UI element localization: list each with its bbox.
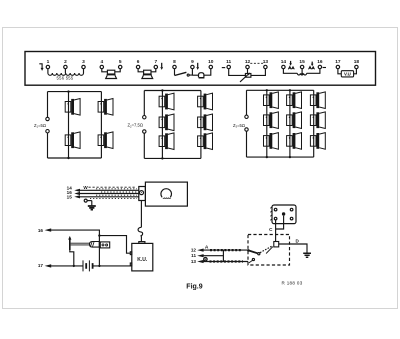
group1 column 1 wire [68, 92, 70, 158]
speaker g1 r1c2 [98, 99, 113, 116]
wire terminal 4 to speaker [102, 69, 108, 72]
speaker between 6-7 (horn down) [144, 70, 151, 74]
svg-text:14: 14 [281, 59, 287, 65]
group2 column 1 wire [161, 91, 163, 159]
svg-text:18: 18 [354, 59, 360, 65]
dashed link 12-13 [250, 62, 263, 64]
speaker g1 r1c1 [65, 99, 80, 116]
svg-text:Fig.9: Fig.9 [186, 284, 202, 291]
svg-text:17: 17 [38, 263, 44, 268]
speaker g2 r1c1 [159, 93, 174, 110]
svg-text:8: 8 [173, 59, 176, 65]
svg-text:17: 17 [335, 59, 341, 65]
group3 top wire [247, 89, 314, 91]
rheostat arrow [240, 75, 248, 82]
svg-text:4: 4 [100, 59, 103, 65]
K.U. box [132, 243, 153, 271]
group1 top wire [48, 91, 102, 93]
speaker g3 r2c3 [310, 112, 325, 129]
speaker g3 r1c3 [310, 92, 325, 109]
speaker g3 r2c1 [264, 112, 279, 129]
shield bond vertical [222, 250, 224, 261]
input arrow before terminal 1 [39, 64, 42, 68]
wire terminal 6 to speaker [138, 69, 144, 72]
group1 column 2 wire [100, 92, 102, 158]
svg-text:16: 16 [317, 59, 323, 65]
svg-text:16: 16 [38, 228, 44, 233]
buzzer between 9-10 [192, 74, 198, 76]
cable lacing hatches [96, 188, 137, 190]
group3 left vertical + terminals [246, 90, 248, 157]
svg-text:6: 6 [137, 59, 140, 65]
tapped coil 556 555 between terminals 1-3 [48, 69, 84, 74]
wire 17 with battery [51, 265, 83, 267]
svg-text:Z3=5Ω: Z3=5Ω [233, 123, 245, 129]
down arrow after terminal 9 [197, 63, 199, 67]
speaker g3 r1c2 [287, 92, 302, 109]
speaker g2 r2c2 [198, 114, 213, 131]
speaker g3 r3c2 [287, 133, 302, 150]
svg-text:15: 15 [67, 194, 73, 199]
wire from push bar to battery line [70, 250, 74, 266]
group3 column 3 wire [313, 90, 315, 157]
group1 bottom wire [48, 157, 102, 159]
shield terminal circle [84, 199, 87, 202]
wire 15 with left arrow [79, 196, 139, 198]
svg-text:15: 15 [299, 59, 305, 65]
svg-text:A: A [205, 245, 209, 251]
terminal circles 1-18 [46, 65, 358, 68]
svg-text:11: 11 [191, 253, 196, 258]
dashed switch box [248, 235, 290, 266]
wire 14 with left arrow [79, 189, 139, 191]
dashed line W [89, 186, 137, 188]
svg-text:W: W [83, 185, 88, 190]
speaker between 4-5 (horn down) [107, 70, 114, 74]
group3 bottom wire [247, 156, 314, 158]
svg-text:12: 12 [245, 59, 251, 65]
jack bushing [274, 242, 279, 247]
jack mounting plate [272, 205, 296, 224]
wire terminal 5 to speaker [115, 69, 120, 72]
group3 junction dots [266, 89, 268, 91]
speaker g2 r3c1 [159, 133, 174, 150]
contact marks between 15-16 [309, 67, 315, 70]
speaker g1 r2c1 [65, 132, 80, 149]
fader between 14-15-16 [283, 69, 297, 74]
V.U box between 17-18 [338, 69, 341, 74]
wire from plate hole to jack [275, 220, 277, 242]
svg-text:3: 3 [82, 59, 85, 65]
group2 bottom wire [144, 157, 201, 159]
group2 top wire [144, 90, 201, 92]
group2 column 2 wire [200, 91, 202, 159]
down arrow between 14-15 [290, 61, 292, 64]
group1 left vertical + terminals [47, 92, 49, 158]
plate edge hatching [270, 207, 272, 221]
spring contact from bushing [266, 247, 273, 254]
group2 junction dots [161, 89, 163, 91]
branch to K.U. upper tab [99, 236, 130, 254]
speaker g2 r1c2 [198, 93, 213, 110]
junction dot at box edge [247, 249, 250, 252]
svg-text:V.U: V.U [344, 71, 351, 76]
contact capsule [90, 242, 100, 248]
wire D to ground [279, 244, 307, 253]
svg-text:K.U.: K.U. [137, 257, 148, 263]
down arrow after terminal 7 [161, 63, 163, 67]
down arrow between 15-16 [311, 62, 313, 64]
svg-text:Z2=7,5Ω: Z2=7,5Ω [127, 123, 143, 129]
speaker g3 r1c1 [264, 92, 279, 109]
terminal numbers 1-18 [47, 59, 360, 65]
wire 16 with left arrow [79, 193, 139, 195]
svg-text:12: 12 [191, 248, 197, 253]
svg-text:7: 7 [154, 59, 157, 65]
speaker g2 r2c1 [159, 114, 174, 131]
svg-text:2: 2 [64, 59, 67, 65]
group3 column 2 wire [289, 90, 291, 157]
insulated actuator rod [260, 246, 273, 253]
switch between 8-9 [174, 69, 176, 76]
wire 11 [203, 255, 223, 257]
speaker g3 r2c2 [287, 112, 302, 129]
svg-text:13: 13 [191, 259, 197, 264]
wire 13 (shielded) [203, 261, 248, 263]
wire 16 (press-to-talk) [51, 230, 99, 242]
group1 junction dots [67, 90, 69, 92]
svg-text:556 555: 556 555 [57, 76, 74, 81]
amplifier unit box [145, 182, 187, 206]
Re box [100, 242, 109, 248]
svg-text:9: 9 [191, 59, 194, 65]
contact marks between 14-15 [288, 67, 294, 70]
speaker g2 r3c2 [198, 133, 213, 150]
svg-text:1: 1 [47, 59, 50, 65]
cord to K.U. with squiggle [140, 201, 142, 227]
svg-text:11: 11 [226, 59, 231, 65]
wire C from tip contact [276, 216, 284, 229]
rheostat between 11-12-13 [229, 69, 246, 76]
svg-text:5: 5 [119, 59, 122, 65]
minus mark left of terminal 11 [222, 67, 225, 69]
connector box [139, 187, 146, 201]
switch vertical through capsule [98, 242, 100, 266]
svg-text:Z1=5Ω: Z1=5Ω [34, 123, 46, 129]
group3 column 1 wire [266, 90, 268, 157]
ground (chassis) [91, 201, 93, 206]
svg-text:13: 13 [263, 59, 269, 65]
svg-text:10: 10 [208, 59, 214, 65]
switch blade [248, 250, 257, 253]
plunger shaft [71, 243, 90, 245]
tube symbol inside unit [161, 189, 172, 198]
svg-text:R 188 03: R 188 03 [282, 281, 303, 286]
connector circle [140, 191, 144, 195]
wire 12 (shielded) [203, 249, 248, 251]
minus mark right of terminal 16 [323, 67, 326, 69]
lower contact [252, 258, 254, 260]
group2 left vertical + terminals [143, 91, 145, 159]
speaker g3 r3c3 [310, 133, 325, 150]
speaker g1 r2c2 [98, 132, 113, 149]
wire terminal 7 to speaker [151, 69, 156, 72]
circled B on wire 13 [204, 258, 207, 261]
battery cells [83, 260, 89, 271]
terminal strip box [25, 52, 376, 86]
speaker g3 r3c1 [264, 133, 279, 150]
push rod bar [69, 239, 71, 250]
